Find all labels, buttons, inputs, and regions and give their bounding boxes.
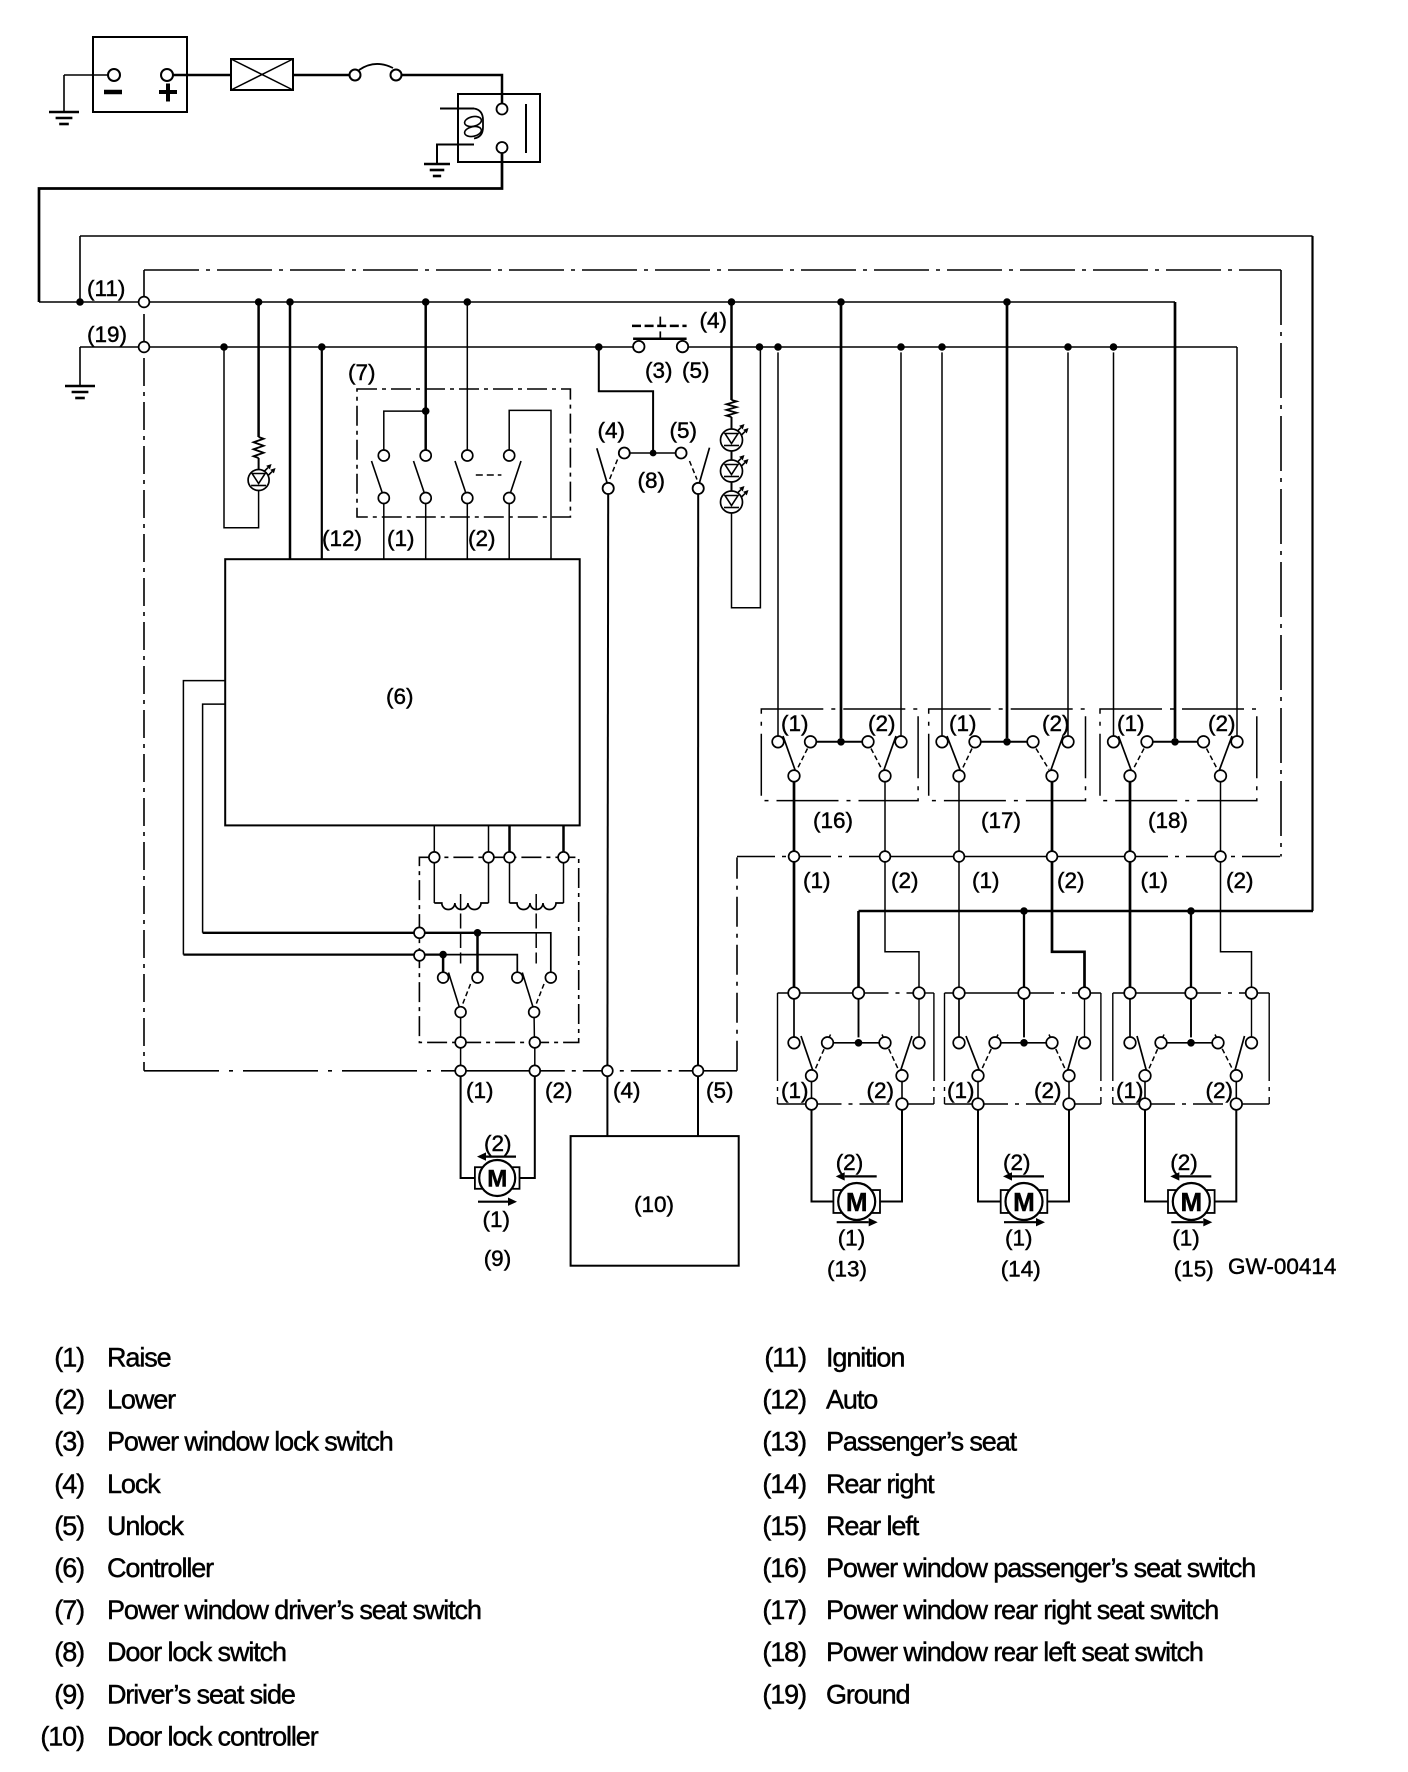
svg-text:Auto: Auto bbox=[826, 1385, 877, 1415]
svg-text:(11): (11) bbox=[87, 276, 125, 301]
svg-text:(9): (9) bbox=[54, 1679, 84, 1709]
svg-text:Power window rear left seat sw: Power window rear left seat switch bbox=[826, 1637, 1203, 1667]
svg-text:(2): (2) bbox=[867, 1078, 895, 1103]
svg-text:(16): (16) bbox=[762, 1553, 806, 1583]
svg-text:(1): (1) bbox=[387, 526, 415, 551]
svg-text:(2): (2) bbox=[891, 868, 919, 893]
svg-text:(2): (2) bbox=[1170, 1150, 1198, 1175]
svg-text:(1): (1) bbox=[781, 1078, 809, 1103]
svg-text:(6): (6) bbox=[386, 684, 414, 709]
svg-text:(19): (19) bbox=[87, 322, 127, 347]
svg-text:(2): (2) bbox=[1003, 1150, 1031, 1175]
svg-text:(3): (3) bbox=[54, 1427, 84, 1457]
svg-text:(16): (16) bbox=[813, 808, 853, 833]
svg-text:(5): (5) bbox=[682, 358, 710, 383]
svg-text:Power window rear right seat s: Power window rear right seat switch bbox=[826, 1595, 1218, 1625]
svg-text:(12): (12) bbox=[322, 526, 362, 551]
svg-text:(1): (1) bbox=[1116, 1078, 1144, 1103]
svg-text:(2): (2) bbox=[1057, 868, 1085, 893]
svg-text:(1): (1) bbox=[972, 868, 1000, 893]
svg-text:Lock: Lock bbox=[107, 1469, 161, 1499]
svg-text:Power window driver’s seat swi: Power window driver’s seat switch bbox=[107, 1595, 481, 1625]
svg-text:(1): (1) bbox=[949, 711, 977, 736]
svg-text:(5): (5) bbox=[670, 418, 698, 443]
svg-text:(11): (11) bbox=[764, 1343, 806, 1373]
svg-text:Power window lock switch: Power window lock switch bbox=[107, 1427, 393, 1457]
svg-text:(6): (6) bbox=[54, 1553, 84, 1583]
svg-text:GW-00414: GW-00414 bbox=[1228, 1254, 1336, 1279]
svg-text:(10): (10) bbox=[634, 1192, 674, 1217]
svg-text:(2): (2) bbox=[54, 1385, 84, 1415]
svg-text:(1): (1) bbox=[838, 1226, 866, 1251]
svg-text:(1): (1) bbox=[1141, 868, 1169, 893]
svg-text:(1): (1) bbox=[466, 1078, 494, 1103]
svg-text:(3): (3) bbox=[645, 358, 673, 383]
svg-text:(2): (2) bbox=[1206, 1078, 1234, 1103]
svg-text:(10): (10) bbox=[40, 1721, 84, 1751]
svg-text:(4): (4) bbox=[54, 1469, 84, 1499]
svg-text:(14): (14) bbox=[762, 1469, 806, 1499]
svg-text:(1): (1) bbox=[803, 868, 831, 893]
svg-text:(7): (7) bbox=[54, 1595, 84, 1625]
svg-text:(2): (2) bbox=[468, 526, 496, 551]
svg-text:Raise: Raise bbox=[107, 1343, 171, 1373]
svg-text:(17): (17) bbox=[981, 808, 1021, 833]
svg-text:(2): (2) bbox=[1226, 868, 1254, 893]
svg-text:(2): (2) bbox=[1042, 711, 1070, 736]
svg-text:(18): (18) bbox=[1148, 808, 1188, 833]
svg-text:(4): (4) bbox=[598, 418, 626, 443]
svg-text:M: M bbox=[1180, 1187, 1202, 1217]
svg-text:(1): (1) bbox=[781, 711, 809, 736]
svg-text:(19): (19) bbox=[762, 1679, 806, 1709]
svg-text:(2): (2) bbox=[545, 1078, 573, 1103]
svg-text:(1): (1) bbox=[483, 1207, 511, 1232]
svg-text:(15): (15) bbox=[1174, 1257, 1214, 1282]
svg-text:Door lock controller: Door lock controller bbox=[107, 1721, 319, 1751]
svg-text:(8): (8) bbox=[638, 468, 666, 493]
svg-text:Rear left: Rear left bbox=[826, 1511, 920, 1541]
svg-text:(2): (2) bbox=[836, 1150, 864, 1175]
svg-text:M: M bbox=[1013, 1187, 1035, 1217]
svg-text:(1): (1) bbox=[1172, 1226, 1200, 1251]
svg-text:(1): (1) bbox=[947, 1078, 975, 1103]
svg-text:(2): (2) bbox=[484, 1131, 512, 1156]
svg-text:(14): (14) bbox=[1001, 1257, 1041, 1282]
svg-text:(5): (5) bbox=[54, 1511, 84, 1541]
svg-text:Door lock switch: Door lock switch bbox=[107, 1637, 286, 1667]
svg-text:(7): (7) bbox=[348, 360, 376, 385]
svg-text:Ground: Ground bbox=[826, 1679, 910, 1709]
svg-text:M: M bbox=[846, 1187, 868, 1217]
svg-text:(1): (1) bbox=[1117, 711, 1145, 736]
svg-text:Passenger’s seat: Passenger’s seat bbox=[826, 1427, 1018, 1457]
svg-text:(4): (4) bbox=[613, 1078, 641, 1103]
svg-text:Ignition: Ignition bbox=[826, 1343, 904, 1373]
svg-text:(2): (2) bbox=[1208, 711, 1236, 736]
svg-text:Unlock: Unlock bbox=[107, 1511, 185, 1541]
svg-text:(9): (9) bbox=[484, 1246, 512, 1271]
svg-text:Controller: Controller bbox=[107, 1553, 214, 1583]
svg-text:Power window passenger’s seat: Power window passenger’s seat switch bbox=[826, 1553, 1255, 1583]
svg-text:(18): (18) bbox=[762, 1637, 806, 1667]
svg-text:(1): (1) bbox=[54, 1343, 84, 1373]
svg-text:(15): (15) bbox=[762, 1511, 806, 1541]
svg-text:(12): (12) bbox=[762, 1385, 806, 1415]
svg-text:Driver’s seat side: Driver’s seat side bbox=[107, 1679, 295, 1709]
svg-text:(4): (4) bbox=[700, 308, 728, 333]
svg-text:(5): (5) bbox=[706, 1078, 734, 1103]
svg-text:(2): (2) bbox=[1034, 1078, 1062, 1103]
svg-text:(2): (2) bbox=[868, 711, 896, 736]
svg-text:(8): (8) bbox=[54, 1637, 84, 1667]
svg-text:(17): (17) bbox=[762, 1595, 806, 1625]
svg-text:(13): (13) bbox=[827, 1257, 867, 1282]
svg-text:(13): (13) bbox=[762, 1427, 806, 1457]
svg-text:Rear right: Rear right bbox=[826, 1469, 935, 1499]
svg-text:Lower: Lower bbox=[107, 1385, 176, 1415]
svg-text:M: M bbox=[487, 1166, 507, 1193]
svg-text:(1): (1) bbox=[1005, 1226, 1033, 1251]
